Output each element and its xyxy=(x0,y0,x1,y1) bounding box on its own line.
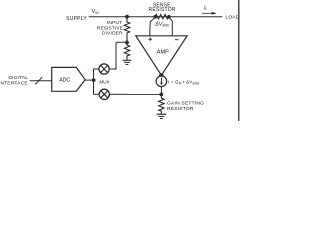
svg-text:VIN: VIN xyxy=(92,9,100,15)
wire mux branch xyxy=(94,69,100,94)
svg-text:RESISTOR: RESISTOR xyxy=(167,106,194,112)
svg-text:RESISTOR: RESISTOR xyxy=(149,7,176,13)
arrow current IL xyxy=(202,12,213,14)
svg-text:INTERFACE: INTERFACE xyxy=(0,81,28,87)
wire digital interface to ADC xyxy=(30,80,52,82)
node divider tap xyxy=(125,41,129,45)
svg-text:I = GM • ΔVSNS: I = GM • ΔVSNS xyxy=(168,80,199,86)
multiplier upper xyxy=(99,64,109,74)
wire sense right to amp minus xyxy=(169,17,172,36)
ground divider xyxy=(123,60,132,64)
svg-text:SUPPLY: SUPPLY xyxy=(66,16,87,22)
block ADC xyxy=(52,67,85,91)
svg-text:GAIN SETTING: GAIN SETTING xyxy=(167,101,204,107)
ground gain resistor xyxy=(157,114,167,118)
wire current source to gain resistor xyxy=(160,87,162,99)
resistor sense xyxy=(155,14,169,19)
multiplier lower xyxy=(99,89,109,99)
svg-text:MUX: MUX xyxy=(99,80,109,85)
pin minus xyxy=(175,39,178,41)
resistor gain setting xyxy=(159,98,164,114)
resistor divider lower xyxy=(124,43,129,60)
wire tap to upper multiplier xyxy=(109,42,127,69)
node amp output xyxy=(159,73,164,78)
node sense resistor left xyxy=(153,15,157,19)
svg-text:RESISTIVE: RESISTIVE xyxy=(97,25,123,31)
svg-text:INPUT: INPUT xyxy=(107,20,122,26)
pin plus xyxy=(149,37,153,41)
wire ADC to mux node xyxy=(85,79,93,81)
svg-text:LOAD: LOAD xyxy=(226,15,240,21)
op-amp AMP xyxy=(136,36,187,76)
wire upper multiplier to tap riser xyxy=(109,68,116,70)
svg-text:ADC: ADC xyxy=(59,78,70,84)
wire supply rail xyxy=(89,16,223,18)
svg-text:AMP: AMP xyxy=(157,50,169,56)
svg-text:DIGITAL: DIGITAL xyxy=(8,75,28,81)
node divider tap on rail xyxy=(125,15,129,19)
bus slash xyxy=(35,77,42,84)
svg-text:DIVIDER: DIVIDER xyxy=(102,31,123,37)
border right xyxy=(238,0,240,121)
wire sense left to amp plus xyxy=(150,17,156,36)
wire lower multiplier to gain node xyxy=(109,93,161,95)
node sense resistor right xyxy=(167,15,171,19)
resistor divider upper xyxy=(124,17,129,43)
current source xyxy=(156,76,167,87)
node mux xyxy=(92,78,96,82)
node gain setting xyxy=(159,93,163,97)
